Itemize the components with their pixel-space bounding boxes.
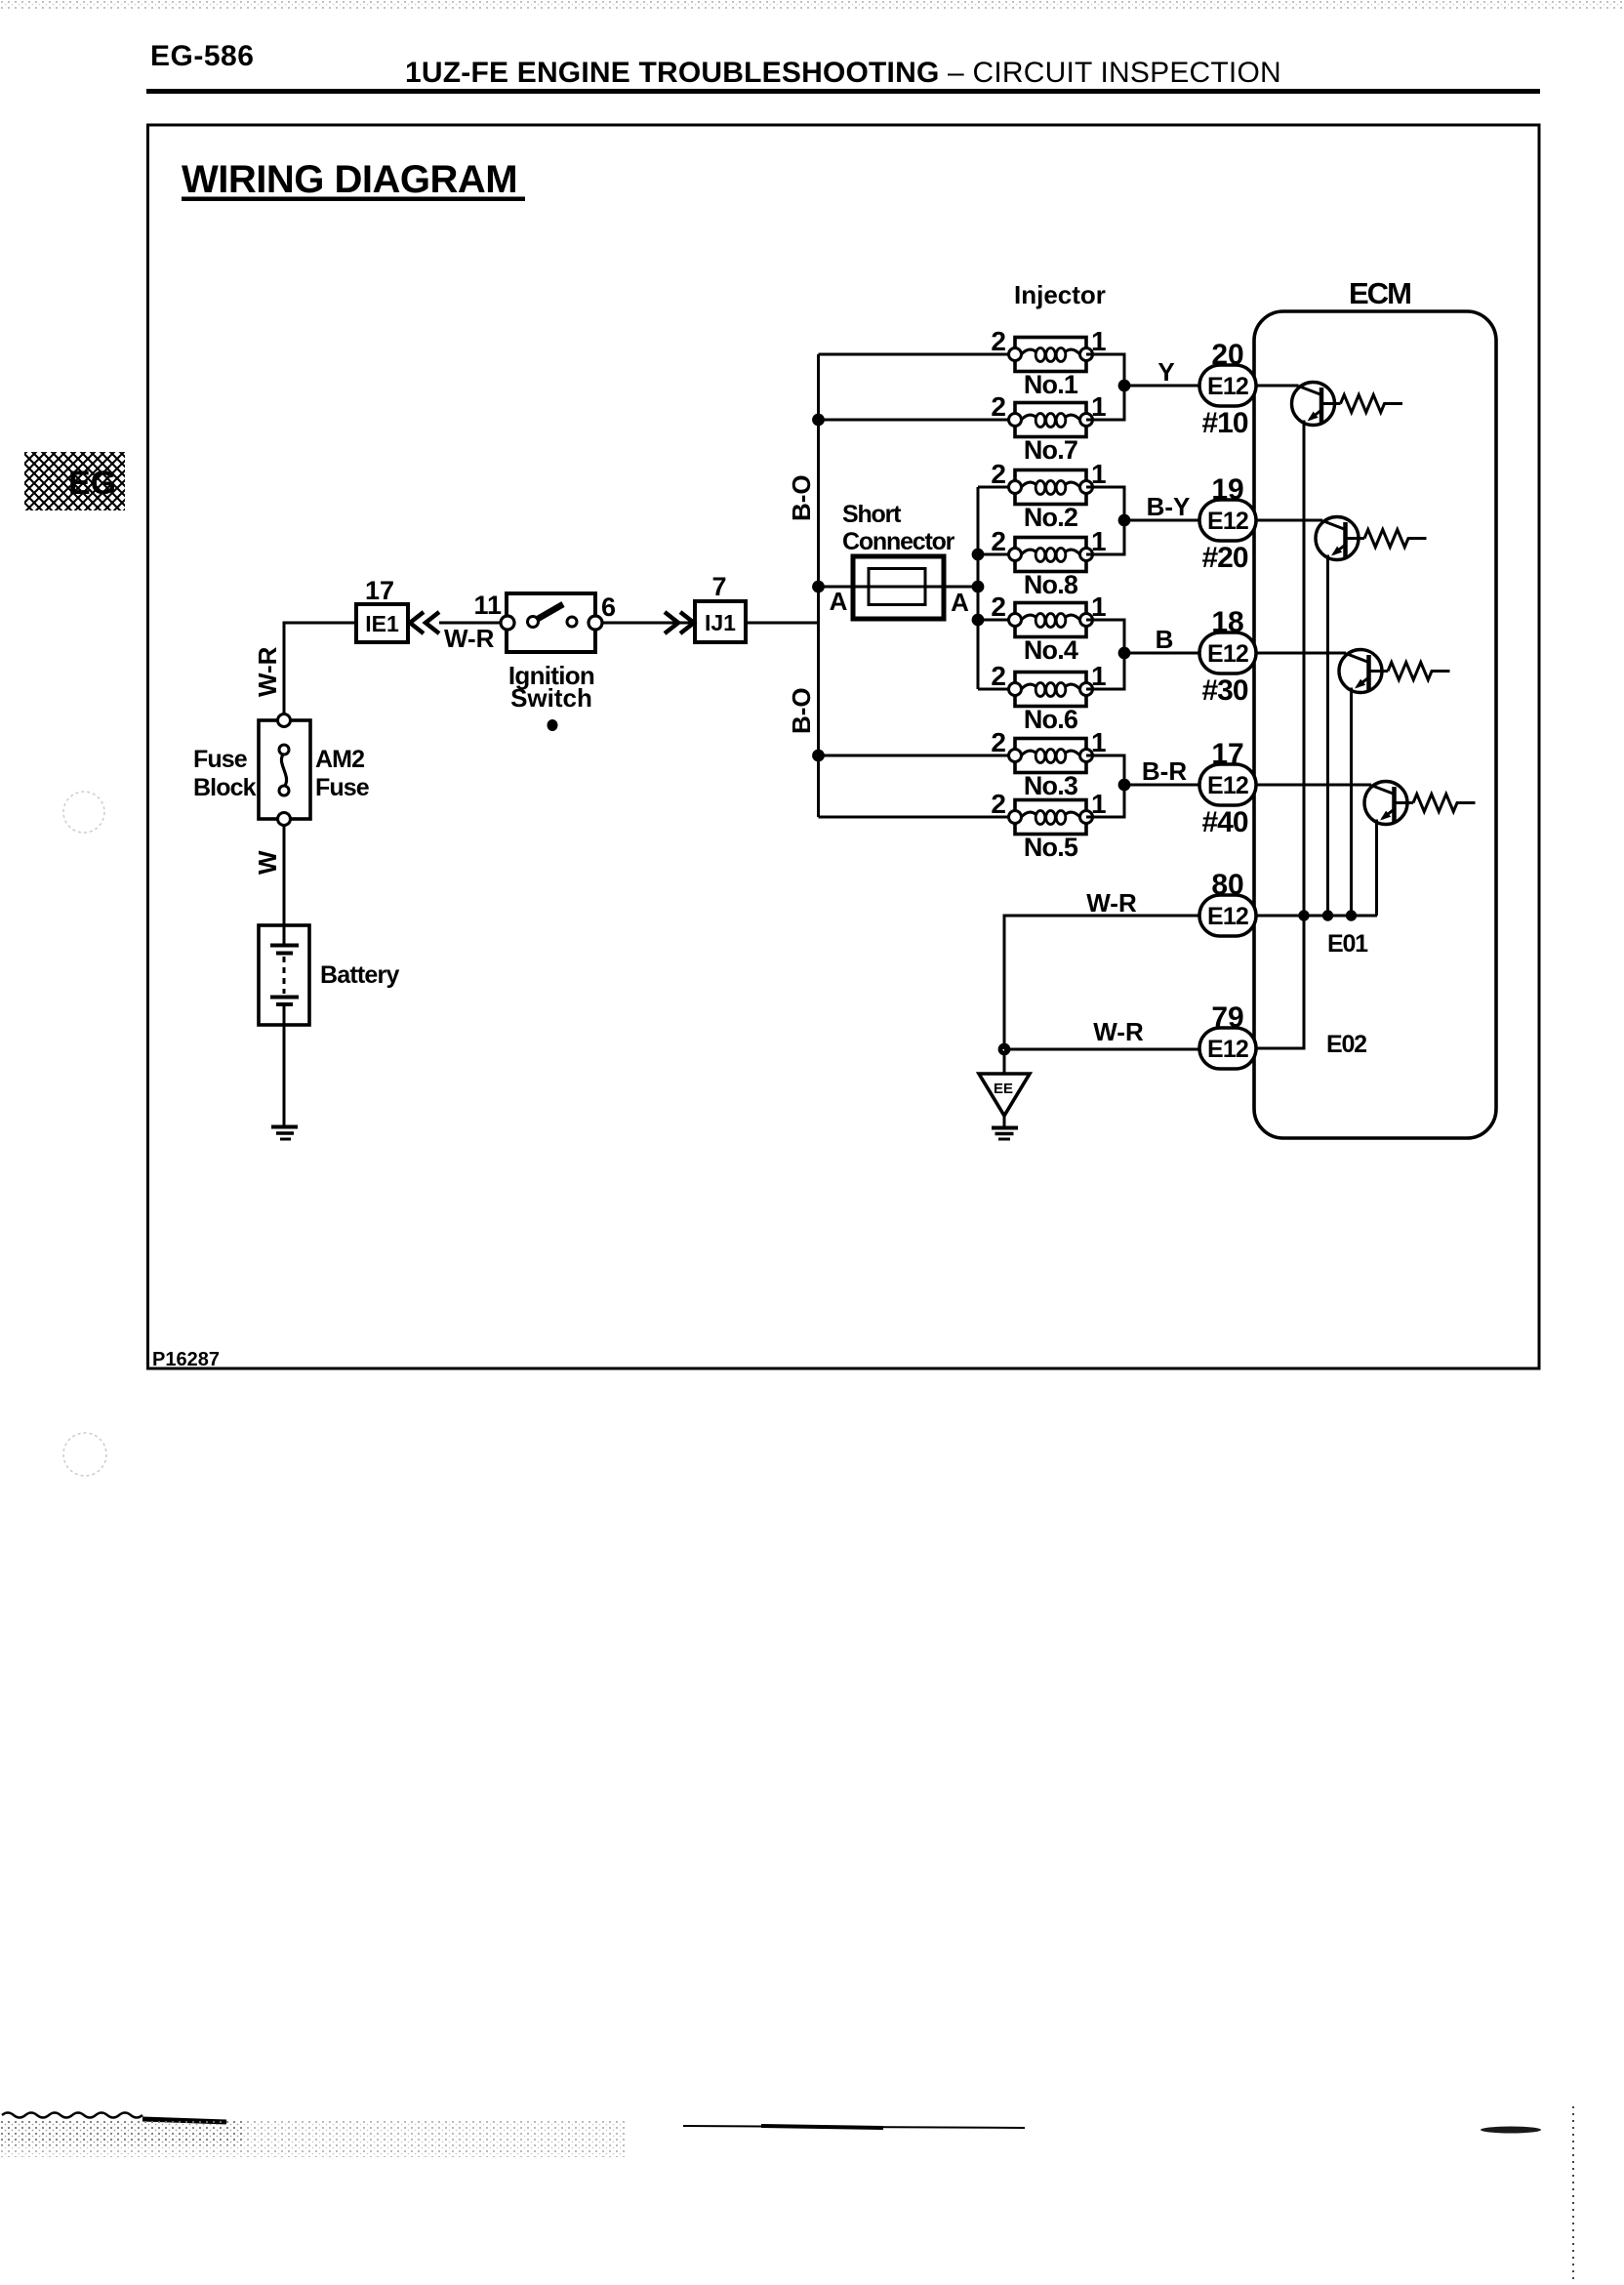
wire injector pair to pin junction, net Y <box>1086 354 1199 420</box>
transistor Q4 <box>1364 782 1413 825</box>
bottom scan line center thick <box>761 2126 883 2128</box>
svg-text:1: 1 <box>1091 789 1107 819</box>
transistor Q1 <box>1292 383 1341 426</box>
svg-text:Connector: Connector <box>842 528 955 555</box>
svg-text:17: 17 <box>365 576 394 605</box>
svg-text:Switch: Switch <box>510 683 592 713</box>
svg-text:#30: #30 <box>1201 674 1247 707</box>
wire IE1 to ignition switch <box>439 622 507 625</box>
wire E12 to transistor Q3 base <box>1256 652 1346 655</box>
connector E12 (pin 19) <box>1199 500 1256 541</box>
svg-text:EG-586: EG-586 <box>150 40 254 72</box>
wire Q4 emitter to E01 <box>1375 820 1378 917</box>
wire E12 pin 79, net W-R <box>1004 1048 1199 1051</box>
transistor Q3 <box>1339 650 1388 693</box>
connector arrows at IE1 <box>410 612 439 633</box>
junction Q1 emitter on E01 <box>1300 912 1307 918</box>
junction right bus at short connector <box>974 583 982 591</box>
junction right bus at No.8 <box>974 551 982 558</box>
svg-text:B: B <box>1156 625 1174 654</box>
wire right injector bus <box>977 487 980 689</box>
svg-text:E12: E12 <box>1207 373 1248 400</box>
svg-text:Injector: Injector <box>1014 280 1106 309</box>
junction on bus at No.7 <box>815 416 823 424</box>
svg-text:W-R: W-R <box>253 646 282 697</box>
svg-text:No.5: No.5 <box>1024 833 1078 862</box>
svg-text:Fuse: Fuse <box>315 774 370 801</box>
connector E12 (pin 80) <box>1199 895 1256 936</box>
svg-text:2: 2 <box>991 526 1006 556</box>
EG section tab badge <box>24 452 125 510</box>
svg-text:Short: Short <box>842 501 902 528</box>
wire fuse block to IE1, net W-R <box>284 623 356 714</box>
svg-text:No.1: No.1 <box>1024 370 1078 399</box>
svg-text:E01: E01 <box>1327 930 1368 958</box>
wire bus through short connector <box>819 586 979 589</box>
connector E12 (pin 17) <box>1199 764 1256 805</box>
wire bus to injector No.8 <box>978 553 1015 556</box>
injector No.2 <box>1009 470 1093 505</box>
svg-text:2: 2 <box>991 789 1006 819</box>
connector arrows at IJ1 <box>665 612 694 633</box>
svg-text:E12: E12 <box>1207 903 1248 930</box>
svg-text:EG: EG <box>68 465 116 502</box>
bottom scan blob right <box>1481 2127 1541 2134</box>
wire bus to injector No.5 <box>819 816 1016 819</box>
wire IJ1 to B-O bus <box>746 622 819 625</box>
ignition switch SW1 <box>501 593 602 652</box>
svg-text:2: 2 <box>991 459 1006 489</box>
fuse block <box>259 714 310 826</box>
svg-text:E12: E12 <box>1207 1036 1248 1063</box>
right edge dotted line <box>1572 2106 1574 2280</box>
svg-text:1UZ-FE ENGINE TROUBLESHOOTING: 1UZ-FE ENGINE TROUBLESHOOTING – CIRCUIT … <box>405 57 1281 89</box>
svg-text:B-R: B-R <box>1142 756 1187 786</box>
ground (battery) <box>271 1025 298 1139</box>
wire bus to injector No.7 <box>819 419 1016 422</box>
svg-text:1: 1 <box>1091 391 1107 422</box>
svg-text:#10: #10 <box>1201 407 1247 439</box>
wire injector pair to pin junction, net B-R <box>1086 755 1199 817</box>
svg-text:Block: Block <box>193 774 257 801</box>
junction on bus at No.3 <box>815 752 823 759</box>
svg-text:A: A <box>830 587 848 616</box>
wire bus to injector No.6 <box>978 688 1015 691</box>
resistor at Q4 collector <box>1413 795 1476 812</box>
svg-text:1: 1 <box>1091 661 1107 691</box>
junction of pair at B-Y <box>1120 516 1128 524</box>
battery <box>259 925 309 1025</box>
injector No.8 <box>1009 538 1093 572</box>
page header noise band <box>0 1 1624 9</box>
wire bus to injector No.4 <box>978 619 1015 622</box>
transistor Q2 <box>1316 517 1364 560</box>
wire battery to fuse block, net W <box>283 825 286 925</box>
title rule <box>146 89 1540 94</box>
wire bus to injector No.1 <box>819 353 1016 356</box>
svg-text:P16287: P16287 <box>152 1349 220 1370</box>
svg-text:WIRING DIAGRAM: WIRING DIAGRAM <box>182 158 517 201</box>
svg-text:EE: EE <box>994 1081 1013 1097</box>
bottom scan line center <box>683 2126 1025 2128</box>
svg-text:E12: E12 <box>1207 772 1248 799</box>
wire E12 to transistor Q1 base <box>1256 385 1299 388</box>
svg-text:No.8: No.8 <box>1024 570 1078 599</box>
svg-text:IE1: IE1 <box>365 611 399 636</box>
injector No.1 <box>1009 338 1093 372</box>
bottom speckle band dark left <box>0 2120 244 2145</box>
junction right bus at No.4 <box>974 616 982 624</box>
injector No.4 <box>1009 603 1093 637</box>
wire E12 to transistor Q4 base <box>1256 784 1371 787</box>
svg-text:Fuse: Fuse <box>193 746 248 773</box>
svg-text:2: 2 <box>991 727 1006 757</box>
svg-text:W: W <box>253 850 282 875</box>
svg-text:IJ1: IJ1 <box>705 610 736 635</box>
punch hole shadow lower <box>63 1433 106 1476</box>
connector E12 (pin 79) <box>1199 1028 1256 1069</box>
svg-text:ECM: ECM <box>1349 276 1410 310</box>
svg-text:7: 7 <box>711 572 726 601</box>
wire E12 to transistor Q2 base <box>1256 519 1322 522</box>
fuse AM2 label <box>315 746 370 801</box>
scan artifact blob <box>548 719 558 731</box>
svg-text:No.3: No.3 <box>1024 771 1078 800</box>
junction at EE ground <box>1000 1045 1008 1053</box>
svg-text:E12: E12 <box>1207 508 1248 535</box>
svg-text:1: 1 <box>1091 526 1107 556</box>
junction on bus at short connector (left) <box>815 583 823 591</box>
svg-text:2: 2 <box>991 326 1006 356</box>
svg-text:A: A <box>951 588 969 617</box>
svg-text:Battery: Battery <box>320 961 399 989</box>
svg-text:2: 2 <box>991 592 1006 622</box>
wire node E01 <box>1256 915 1377 918</box>
svg-text:2: 2 <box>991 391 1006 422</box>
svg-text:W-R: W-R <box>444 624 495 653</box>
junction connector IE1 <box>356 604 408 642</box>
resistor at Q3 collector <box>1388 663 1450 680</box>
wire bus to injector No.3 <box>819 755 1016 757</box>
wire left B-O bus <box>817 354 820 817</box>
svg-text:E12: E12 <box>1207 640 1248 668</box>
wire bus to injector No.2 <box>978 486 1015 489</box>
svg-text:No.4: No.4 <box>1024 635 1078 665</box>
connector E12 (pin 18) <box>1199 632 1256 673</box>
ECM box U1 <box>1254 311 1496 1138</box>
connector E12 (pin 20) <box>1199 365 1256 406</box>
svg-text:No.2: No.2 <box>1024 503 1077 532</box>
punch hole shadow upper <box>63 792 104 833</box>
wire Q3 emitter to E01 <box>1350 688 1353 917</box>
junction of pair at B-R <box>1120 781 1128 789</box>
figure frame <box>148 125 1540 1368</box>
fuse block label <box>193 746 257 801</box>
svg-text:#20: #20 <box>1201 542 1247 574</box>
svg-text:6: 6 <box>601 592 616 622</box>
svg-text:B-Y: B-Y <box>1147 492 1191 521</box>
svg-text:No.6: No.6 <box>1024 705 1078 734</box>
heading WIRING DIAGRAM <box>182 158 525 201</box>
short connector label <box>842 501 955 555</box>
svg-text:1: 1 <box>1091 459 1107 489</box>
svg-text:Y: Y <box>1157 357 1174 387</box>
wire Q2 emitter to E01 <box>1326 555 1329 917</box>
ignition switch label <box>508 661 594 713</box>
junction connector IJ1 <box>695 601 746 642</box>
svg-text:B-O: B-O <box>787 474 816 521</box>
injector No.6 <box>1009 673 1093 707</box>
svg-text:1: 1 <box>1091 592 1107 622</box>
resistor at Q2 collector <box>1364 530 1427 548</box>
svg-text:E02: E02 <box>1326 1031 1366 1058</box>
wire injector pair to pin junction, net B <box>1086 620 1199 689</box>
wire injector pair to pin junction, net B-Y <box>1086 487 1199 554</box>
bottom speckle band <box>0 2120 625 2157</box>
svg-text:1: 1 <box>1091 326 1107 356</box>
svg-text:1: 1 <box>1091 727 1107 757</box>
wire Q1 emitter to E01 <box>1303 421 1306 917</box>
svg-text:2: 2 <box>991 661 1006 691</box>
svg-text:B-O: B-O <box>787 687 816 734</box>
svg-text:W-R: W-R <box>1086 888 1137 918</box>
resistor at Q1 collector <box>1341 395 1403 413</box>
injector No.7 <box>1009 403 1093 437</box>
wire node E02 <box>1256 916 1304 1048</box>
junction Q2 emitter on E01 <box>1324 912 1331 918</box>
junction of pair at Y <box>1120 382 1128 389</box>
svg-text:AM2: AM2 <box>315 746 364 773</box>
svg-text:W-R: W-R <box>1093 1017 1144 1046</box>
injector No.3 <box>1009 739 1093 773</box>
bottom scan squiggle <box>2 2113 142 2118</box>
wire ignition switch to IJ1 <box>602 622 695 625</box>
injector No.5 <box>1009 800 1093 835</box>
wire E12 pin 80 to ground node, net W-R <box>1004 916 1199 1049</box>
bottom scan heavy dash left <box>142 2119 226 2122</box>
ground EE <box>979 1053 1030 1139</box>
svg-text:11: 11 <box>473 591 502 620</box>
junction of pair at B <box>1120 649 1128 657</box>
svg-text:#40: #40 <box>1201 806 1247 838</box>
svg-text:No.7: No.7 <box>1024 435 1077 465</box>
short connector <box>853 556 944 619</box>
junction Q3 emitter on E01 <box>1348 912 1355 918</box>
